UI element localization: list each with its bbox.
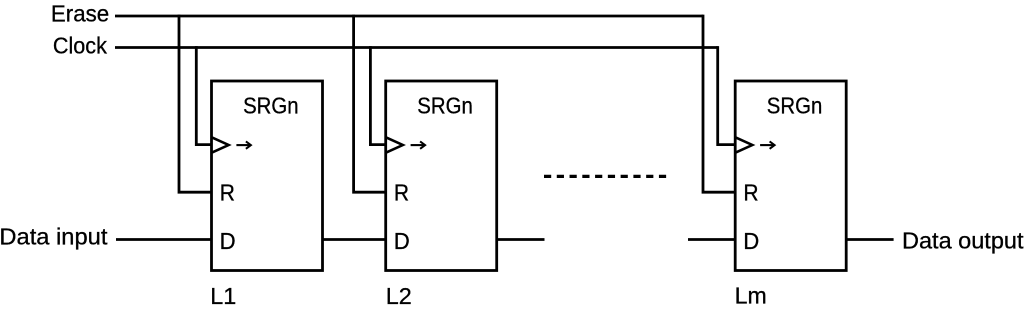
svg-text:SRGn: SRGn [417, 92, 473, 118]
wire Erase drop to L2 R pin [354, 15, 386, 193]
svg-text:Data input: Data input [0, 223, 108, 249]
wire Erase drop to Lm R pin [703, 15, 735, 193]
svg-text:D: D [394, 228, 410, 254]
wire Clock horizontal bus [115, 46, 718, 49]
register L2 box [386, 81, 497, 271]
wire Clock drop to L2 clock pin [370, 46, 385, 145]
register L1 box [212, 81, 323, 271]
svg-text:L2: L2 [386, 283, 412, 309]
wire Data input [116, 238, 212, 241]
svg-text:Lm: Lm [735, 283, 767, 309]
register L1 shift arrow [236, 141, 251, 148]
svg-text:D: D [220, 228, 236, 254]
register L2 shift arrow [411, 141, 426, 148]
svg-text:Clock: Clock [53, 32, 107, 58]
svg-text:L1: L1 [210, 283, 236, 309]
register L2 clock triangle [386, 138, 402, 153]
register Lm shift arrow [760, 141, 775, 148]
dashed continuation wire [544, 175, 666, 178]
wire Erase drop to L1 R pin [179, 15, 212, 193]
svg-text:R: R [394, 180, 409, 206]
wire Clock drop to Lm clock pin [718, 46, 736, 145]
svg-text:D: D [743, 228, 759, 254]
svg-text:Erase: Erase [51, 1, 109, 27]
wire L1 output to L2 input [323, 238, 386, 241]
svg-text:R: R [220, 180, 235, 206]
register Lm clock triangle [736, 138, 752, 153]
register Lm box [735, 81, 846, 271]
svg-text:Data output: Data output [902, 227, 1024, 253]
svg-text:SRGn: SRGn [243, 92, 299, 118]
wire Erase horizontal bus [115, 15, 703, 18]
register L1 clock triangle [212, 138, 228, 153]
wire L2 output stub [497, 238, 545, 241]
wire Data output [846, 238, 893, 241]
wire Lm input stub [688, 238, 735, 241]
svg-text:SRGn: SRGn [767, 92, 823, 118]
wire Clock drop to L1 clock pin [196, 46, 211, 145]
svg-text:R: R [743, 180, 758, 206]
